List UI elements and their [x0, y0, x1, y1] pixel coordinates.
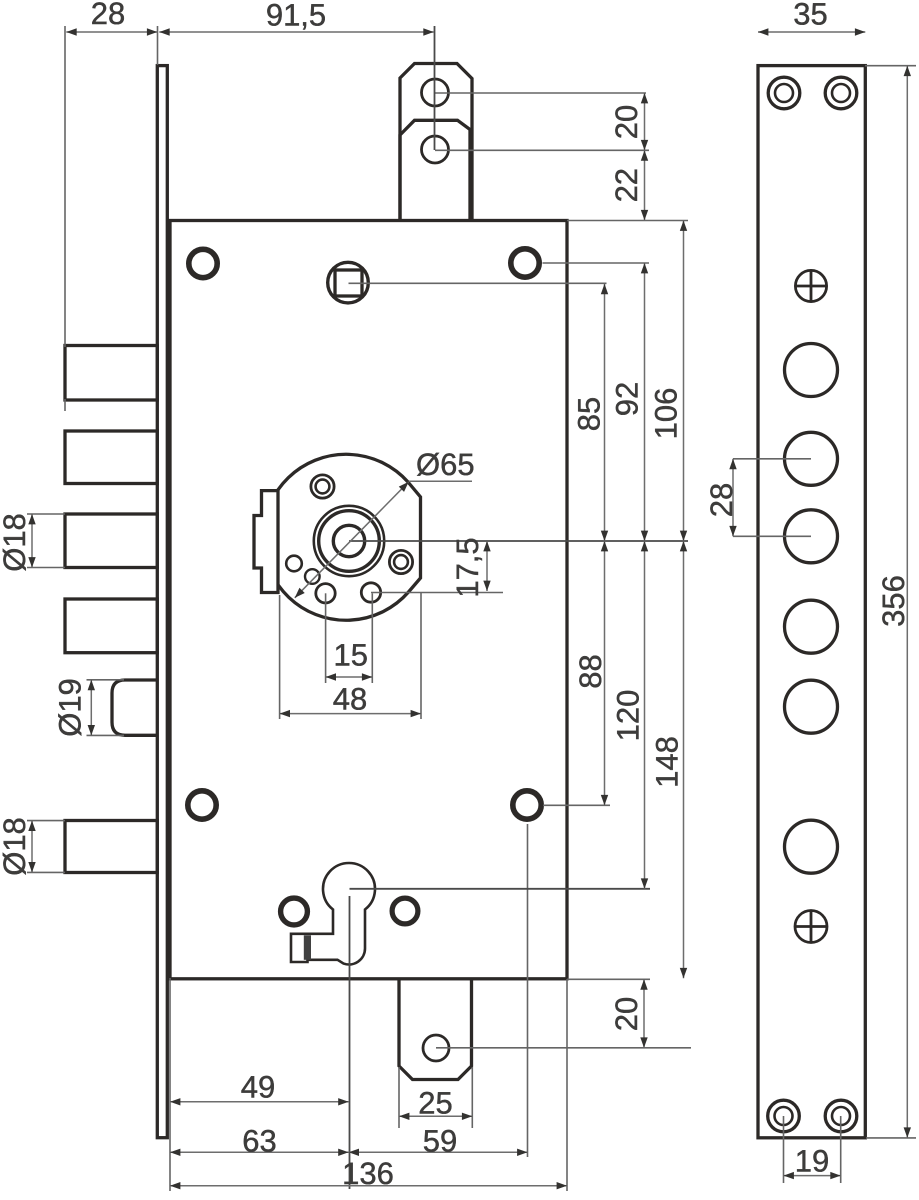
svg-text:Ø18: Ø18 [0, 817, 32, 876]
svg-text:59: 59 [423, 1124, 457, 1159]
svg-text:20: 20 [609, 105, 644, 139]
svg-text:88: 88 [573, 654, 608, 688]
svg-text:48: 48 [333, 682, 367, 717]
svg-text:20: 20 [609, 997, 644, 1031]
svg-text:120: 120 [610, 690, 645, 742]
svg-text:28: 28 [704, 483, 739, 517]
svg-text:92: 92 [610, 382, 645, 416]
svg-text:19: 19 [795, 1144, 829, 1179]
svg-text:22: 22 [609, 168, 644, 202]
svg-text:106: 106 [649, 388, 684, 440]
svg-text:356: 356 [876, 575, 911, 627]
svg-text:17,5: 17,5 [450, 537, 485, 597]
svg-text:28: 28 [91, 0, 125, 31]
svg-text:15: 15 [334, 638, 368, 673]
svg-text:85: 85 [571, 397, 606, 431]
svg-text:Ø18: Ø18 [0, 513, 32, 572]
svg-text:148: 148 [649, 736, 684, 788]
svg-text:49: 49 [241, 1070, 275, 1105]
svg-text:25: 25 [418, 1086, 452, 1121]
svg-text:91,5: 91,5 [266, 0, 326, 33]
svg-text:Ø65: Ø65 [416, 447, 475, 482]
svg-text:Ø19: Ø19 [52, 678, 87, 737]
svg-text:63: 63 [242, 1124, 276, 1159]
svg-text:35: 35 [793, 0, 827, 32]
svg-text:136: 136 [342, 1156, 394, 1191]
